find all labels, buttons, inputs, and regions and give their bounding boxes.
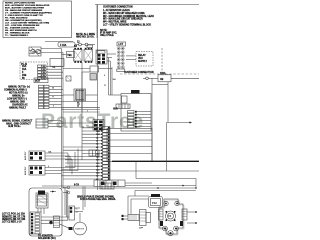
fuel solenoid FS2 bbox=[149, 197, 163, 208]
relay vdc supply box bbox=[126, 52, 153, 67]
right riser wire bbox=[167, 122, 193, 171]
feeder line 3 bbox=[136, 178, 196, 180]
vertical bus A bbox=[61, 49, 63, 189]
left connector P2 bbox=[4, 85, 98, 109]
svg-text:TO STARTER: TO STARTER bbox=[38, 235, 53, 238]
svg-text:15A: 15A bbox=[22, 65, 27, 68]
svg-text:ALM TO B+: ALM TO B+ bbox=[8, 125, 21, 128]
svg-text:ANNUN. B+: ANNUN. B+ bbox=[12, 95, 25, 98]
svg-text:ANNUN. OUT B+ (+): ANNUN. OUT B+ (+) bbox=[8, 86, 30, 89]
engine body bbox=[159, 199, 183, 234]
svg-text:LFP: LFP bbox=[139, 228, 144, 230]
control box outline bbox=[107, 129, 152, 162]
vertical bus B bbox=[62, 53, 64, 189]
svg-text:15B: 15B bbox=[22, 75, 27, 77]
relay K1 bbox=[24, 150, 72, 160]
enclosure internal wires bbox=[38, 187, 85, 229]
LCT connector bbox=[117, 42, 126, 72]
svg-text:AUX RLY: AUX RLY bbox=[24, 166, 27, 175]
junction box JB bbox=[50, 59, 64, 67]
svg-text:W3 - MAIN LINE CIRCUIT BREAKER: W3 - MAIN LINE CIRCUIT BREAKER bbox=[103, 18, 143, 21]
wires SC to LCT bbox=[107, 54, 116, 61]
thick feeder line bbox=[112, 160, 199, 162]
svg-text:SUPPLY: SUPPLY bbox=[138, 61, 148, 63]
svg-text:VDC: VDC bbox=[138, 58, 143, 60]
strip left wires bbox=[62, 128, 103, 179]
svg-text:REMOTE 2W. ST. 183: REMOTE 2W. ST. 183 bbox=[2, 219, 26, 221]
control board connector strip bbox=[96, 127, 110, 181]
battery connector bbox=[69, 206, 79, 220]
relay K3 bbox=[74, 46, 83, 63]
svg-text:1: 1 bbox=[87, 110, 88, 112]
engine assembly bbox=[122, 191, 197, 236]
vertical bus C bbox=[81, 62, 83, 160]
small terminal above P2 bbox=[34, 75, 48, 83]
svg-text:0: 0 bbox=[104, 75, 105, 77]
annunciator contact block bbox=[2, 119, 63, 128]
fuse block bbox=[74, 180, 125, 187]
note wire awg bbox=[76, 33, 95, 39]
sub circuit BCR bbox=[63, 66, 112, 107]
svg-text:66: 66 bbox=[52, 88, 54, 90]
AVR box bbox=[113, 94, 151, 132]
svg-text:W2 - GROUNDED (COMMON) NEUTRAL: W2 - GROUNDED (COMMON) NEUTRAL LEAD bbox=[103, 15, 154, 18]
left plug connector P1 bbox=[20, 62, 63, 80]
svg-text:16A: 16A bbox=[22, 68, 27, 71]
svg-text:W1 - MAIN CIRCUIT BREAKER CONN: W1 - MAIN CIRCUIT BREAKER CONN. bbox=[103, 12, 145, 15]
svg-text:COMMON ALARM (-): COMMON ALARM (-) bbox=[4, 89, 27, 92]
svg-text:RELAY: RELAY bbox=[138, 54, 146, 57]
svg-text:BCR: BCR bbox=[35, 80, 40, 82]
legend notes box bbox=[3, 1, 72, 38]
svg-text:STARTER: STARTER bbox=[75, 228, 85, 231]
engine note text bbox=[77, 196, 116, 202]
engine feed drop bbox=[195, 179, 197, 189]
pulley shaft bbox=[128, 215, 139, 221]
customer connection dashed line bbox=[120, 48, 199, 74]
LCT drop wires bbox=[104, 58, 121, 96]
transformer T1 bbox=[63, 89, 98, 112]
svg-text:150A: 150A bbox=[160, 72, 166, 75]
svg-text:FOR 3-PHASE SEE ENG. DWGS.: FOR 3-PHASE SEE ENG. DWGS. bbox=[80, 198, 116, 201]
svg-text:0: 0 bbox=[53, 106, 54, 108]
svg-text:ANNUN. GND: ANNUN. GND bbox=[10, 101, 25, 104]
svg-text:ANAL. GND CONTACT: ANAL. GND CONTACT bbox=[6, 122, 31, 125]
lower connector below strip bbox=[100, 183, 114, 189]
svg-text:LOT C1 POS. (+) 13A: LOT C1 POS. (+) 13A bbox=[2, 213, 25, 216]
starter motor bbox=[69, 222, 87, 235]
aux connector mid bbox=[89, 150, 99, 156]
wire id labels bbox=[52, 66, 56, 108]
starter contactor SC bbox=[96, 50, 107, 64]
fuse holder block bbox=[54, 216, 60, 228]
svg-text:CB: CB bbox=[160, 79, 164, 81]
to starter text bbox=[38, 235, 56, 240]
svg-text:B+: B+ bbox=[76, 209, 78, 211]
circuit breaker CB bbox=[143, 72, 199, 161]
svg-text:15A: 15A bbox=[96, 130, 100, 133]
customer connection notes bbox=[103, 7, 154, 27]
engine right wires bbox=[187, 211, 196, 213]
AVR terminal rows bbox=[128, 111, 152, 128]
mid wire bundle bbox=[62, 106, 101, 113]
svg-text:USE 2 POLE: USE 2 POLE bbox=[100, 35, 114, 37]
svg-text:77: 77 bbox=[52, 97, 54, 99]
svg-text:166: 166 bbox=[113, 79, 116, 81]
customer connection border bbox=[95, 5, 199, 39]
svg-text:FS: FS bbox=[168, 215, 171, 218]
svg-text:LOW BATTERY (-): LOW BATTERY (-) bbox=[7, 98, 27, 101]
dark module above AVR bbox=[131, 90, 140, 94]
bus stub plugs bbox=[63, 186, 70, 194]
inline fuse F bbox=[58, 42, 95, 48]
main harness connector J2 bbox=[93, 120, 104, 131]
enclosure terminal strip bbox=[30, 212, 41, 234]
svg-text:LCT: LCT bbox=[119, 44, 124, 46]
svg-text:LOT C2 NEG. (-) 0: LOT C2 NEG. (-) 0 bbox=[2, 222, 22, 224]
svg-text:T1 - TRANSFORMER 1: T1 - TRANSFORMER 1 bbox=[5, 34, 29, 37]
feeder line 2 bbox=[108, 170, 199, 172]
relay riser wires bbox=[68, 149, 78, 175]
feeder drop wire bbox=[135, 161, 137, 178]
generator alternator icon bbox=[29, 47, 41, 56]
engine bolt circles bbox=[164, 201, 168, 205]
relay K4 bbox=[84, 45, 93, 63]
strip row pins bbox=[101, 127, 102, 180]
svg-text:LCT - UTILITY SENSING TERMINAL: LCT - UTILITY SENSING TERMINAL BLOCK bbox=[103, 24, 151, 27]
svg-text:REMOTE 2W. ST. 178: REMOTE 2W. ST. 178 bbox=[2, 216, 26, 218]
svg-text:AWG NO. 18 GA.: AWG NO. 18 GA. bbox=[76, 35, 95, 38]
vertical bus D bbox=[97, 5, 99, 191]
svg-text:ANNUN. FAULT: ANNUN. FAULT bbox=[9, 107, 27, 110]
svg-text:W4 - NEUTRAL WIRE: W4 - NEUTRAL WIRE bbox=[103, 21, 127, 24]
svg-text:11: 11 bbox=[104, 85, 106, 87]
alternator output wires bbox=[41, 49, 63, 53]
fuel shutoff FS bbox=[166, 211, 176, 221]
svg-text:AVR: AVR bbox=[113, 108, 118, 111]
enclosure terminal labels bbox=[2, 213, 26, 224]
svg-text:F 15A: F 15A bbox=[60, 44, 67, 47]
svg-text:CUSTOMER CONNECTION: CUSTOMER CONNECTION bbox=[103, 7, 133, 9]
svg-text:FS2: FS2 bbox=[152, 201, 157, 205]
J2 feed wire bbox=[62, 122, 94, 124]
svg-text:CUSTOMER CONNECTION: CUSTOMER CONNECTION bbox=[124, 72, 154, 74]
contactor in enclosure bbox=[36, 191, 56, 209]
svg-text:0: 0 bbox=[48, 166, 49, 168]
svg-text:TB1: TB1 bbox=[67, 55, 72, 57]
lower enclosure bbox=[29, 188, 62, 236]
ground lug bbox=[49, 221, 52, 224]
svg-text:1. ALTERNATOR LEADS: 1. ALTERNATOR LEADS bbox=[103, 9, 130, 12]
relay K2 bbox=[24, 166, 78, 176]
note wire gauge bbox=[100, 30, 117, 37]
svg-text:NOT IN AUTO (+): NOT IN AUTO (+) bbox=[9, 92, 28, 95]
cluster top wire bbox=[45, 41, 73, 43]
svg-text:12: 12 bbox=[77, 106, 79, 108]
svg-text:ANNUN. SIGNAL CONTACT: ANNUN. SIGNAL CONTACT bbox=[2, 120, 33, 123]
top enclosure wires bbox=[42, 183, 197, 189]
engine side flanges bbox=[159, 209, 164, 220]
svg-text:CHARGER AC: CHARGER AC bbox=[12, 104, 28, 107]
svg-text:AUX RLY: AUX RLY bbox=[24, 151, 27, 160]
terminal block TB1 bbox=[62, 52, 75, 58]
